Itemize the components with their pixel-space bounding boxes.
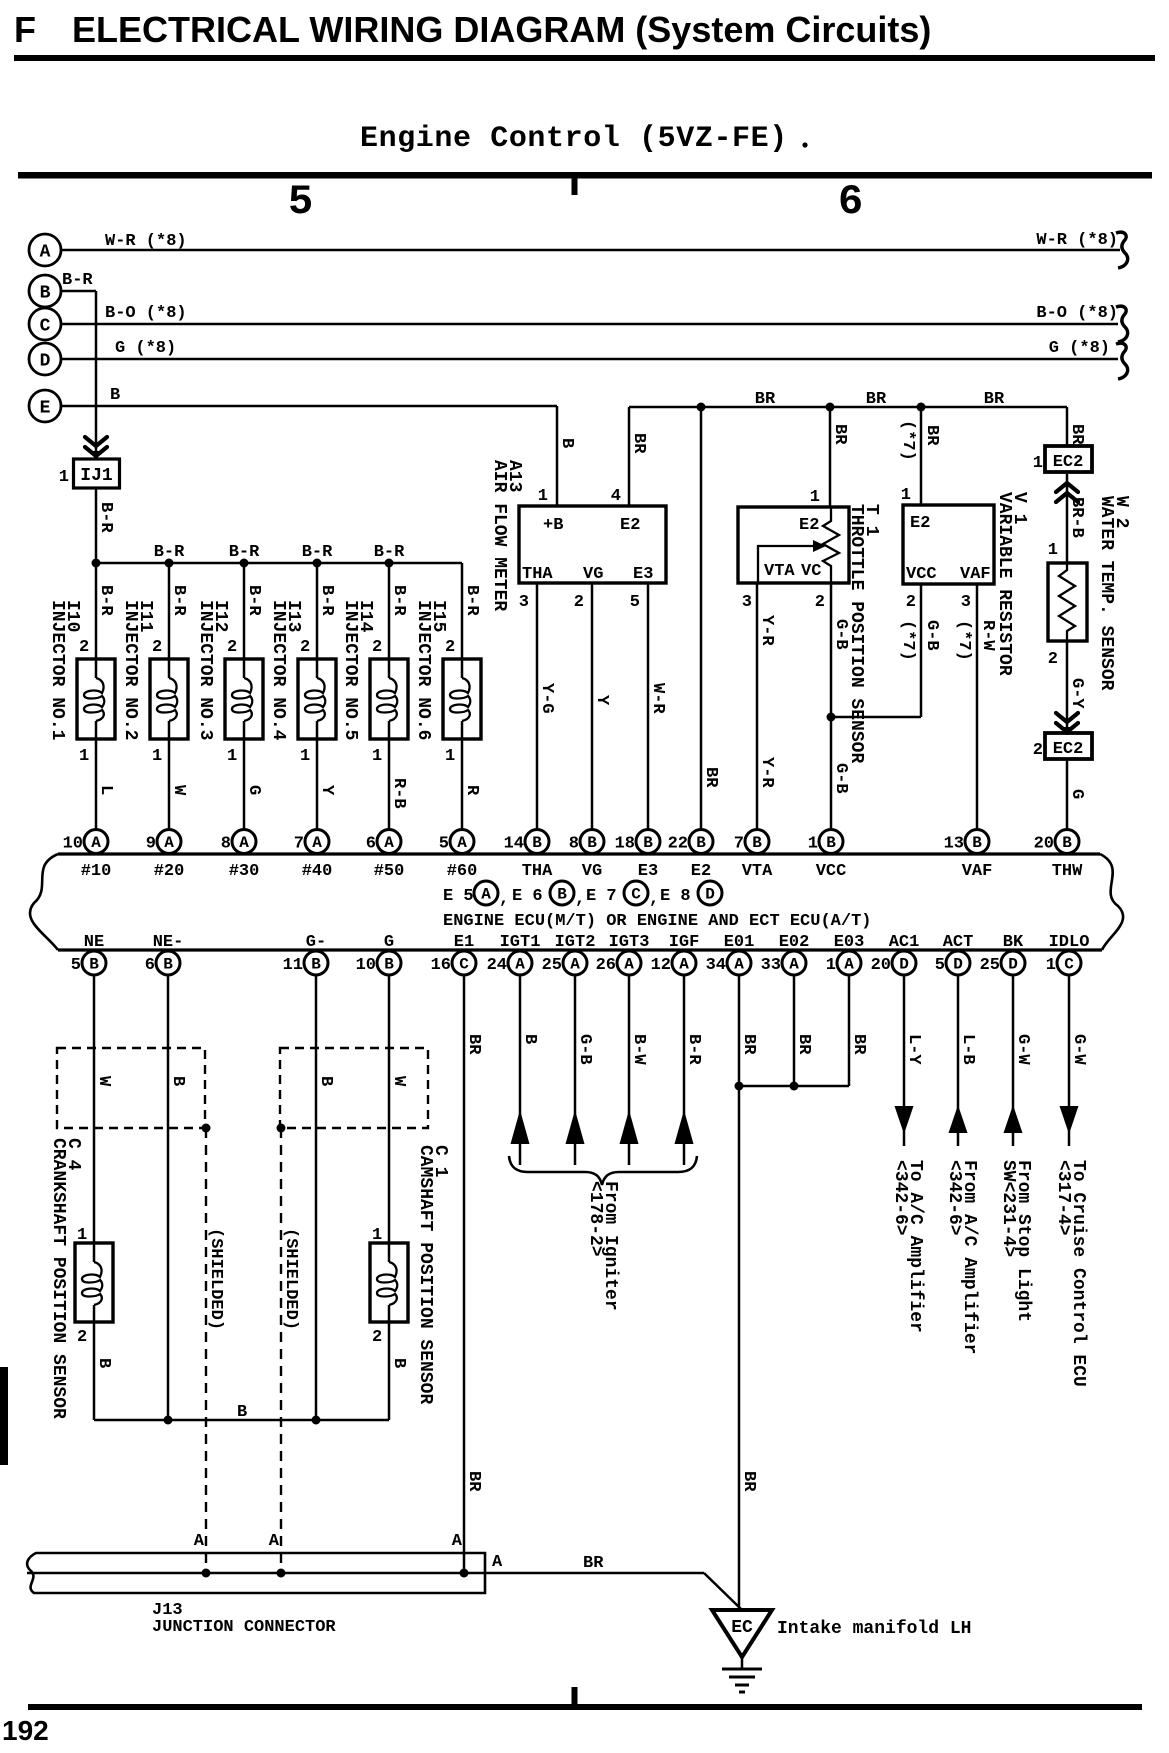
connector circle B bbox=[29, 275, 61, 307]
ECU terminal 20(B) THW bbox=[1034, 830, 1079, 854]
svg-text:5: 5 bbox=[439, 835, 449, 854]
ECU strip left torn edge bbox=[30, 854, 58, 950]
svg-text:B-R: B-R bbox=[374, 543, 405, 562]
left margin index tab bbox=[0, 1367, 8, 1465]
svg-text:3: 3 bbox=[961, 593, 971, 612]
svg-text:INJECTOR NO.1: INJECTOR NO.1 bbox=[47, 600, 67, 741]
ECU terminal 16(C) E1 bbox=[431, 951, 476, 975]
svg-text:192: 192 bbox=[2, 1715, 49, 1746]
ECU terminal 1(A) E03 bbox=[826, 951, 861, 975]
svg-text:G-B: G-B bbox=[922, 620, 941, 651]
shield box camshaft sensor bbox=[280, 1048, 428, 1128]
junction dot shield crank bbox=[202, 1124, 211, 1133]
svg-text:E03: E03 bbox=[834, 933, 865, 952]
water temp sensor W2 box bbox=[1048, 563, 1087, 641]
svg-text:L: L bbox=[96, 785, 115, 795]
svg-text:B: B bbox=[532, 834, 542, 852]
title period mark bbox=[802, 142, 807, 147]
svg-text:34: 34 bbox=[706, 956, 726, 975]
svg-text:E01: E01 bbox=[724, 933, 755, 952]
svg-text:Intake manifold LH: Intake manifold LH bbox=[777, 1619, 971, 1639]
top section bar bbox=[18, 172, 1152, 179]
svg-text:2: 2 bbox=[1048, 650, 1058, 669]
svg-text:A: A bbox=[679, 956, 689, 974]
wire VCC link horizontal bbox=[831, 716, 921, 719]
svg-text:2: 2 bbox=[77, 1328, 87, 1347]
J13 internal bus wire bbox=[27, 1572, 485, 1575]
ground symbol EC bbox=[712, 1610, 772, 1692]
ECU terminal 5(A) #60 bbox=[439, 830, 474, 854]
connector code circle A bbox=[474, 881, 498, 905]
svg-text:NE-: NE- bbox=[153, 933, 184, 952]
connector EC2 pin1 box bbox=[1045, 446, 1092, 472]
throttle position sensor T1 box bbox=[738, 507, 849, 583]
injector I15 INJECTOR NO.6 bbox=[443, 563, 481, 830]
svg-text:BR: BR bbox=[866, 390, 887, 409]
svg-text:1: 1 bbox=[808, 835, 818, 854]
svg-text:6: 6 bbox=[366, 835, 376, 854]
wire G-B IGT/IGF x=575 bbox=[574, 975, 577, 1166]
svg-text:A: A bbox=[452, 1532, 463, 1551]
svg-text:ENGINE ECU(M/T) OR ENGINE AND: ENGINE ECU(M/T) OR ENGINE AND ECT ECU(A/… bbox=[443, 912, 871, 931]
wire A W-R (*8) bbox=[61, 249, 1120, 252]
svg-text:BR: BR bbox=[583, 1554, 604, 1573]
svg-text:A: A bbox=[844, 956, 854, 974]
svg-text:<342-6>: <342-6> bbox=[890, 1160, 910, 1236]
junction connector IJ1 bbox=[74, 459, 120, 488]
svg-text:2: 2 bbox=[445, 638, 455, 657]
top bar center tick bbox=[572, 178, 578, 195]
svg-text:IJ1: IJ1 bbox=[80, 466, 113, 486]
svg-text:20: 20 bbox=[1034, 835, 1054, 854]
svg-text:B-R: B-R bbox=[462, 585, 481, 616]
svg-text:(*7): (*7) bbox=[898, 620, 917, 661]
svg-text:#40: #40 bbox=[302, 862, 333, 881]
svg-text:IDLO: IDLO bbox=[1049, 933, 1090, 952]
shield drain wire cam bbox=[280, 1128, 282, 1573]
svg-text:EC2: EC2 bbox=[1053, 453, 1084, 472]
svg-text:B: B bbox=[316, 1076, 335, 1086]
junction dot E02 bbox=[790, 1082, 799, 1091]
svg-text:18: 18 bbox=[615, 835, 635, 854]
svg-text:E 8: E 8 bbox=[660, 887, 691, 906]
svg-text:ELECTRICAL WIRING DIAGRAM (Sys: ELECTRICAL WIRING DIAGRAM (System Circui… bbox=[72, 9, 931, 50]
svg-text:A: A bbox=[570, 956, 580, 974]
svg-text:VTA: VTA bbox=[742, 862, 773, 881]
variable resistor V1 box bbox=[903, 505, 994, 584]
sensor ground bus BR bbox=[629, 406, 1067, 409]
svg-text:A: A bbox=[91, 834, 101, 852]
svg-text:IGT2: IGT2 bbox=[555, 933, 596, 952]
arrow from igniter x=629 bbox=[620, 1110, 639, 1144]
ECU connector strip bottom edge bbox=[58, 948, 1102, 951]
svg-text:<342-6>: <342-6> bbox=[944, 1160, 964, 1236]
svg-text:B: B bbox=[94, 1358, 113, 1368]
wire G-Y below sensor bbox=[1066, 641, 1069, 735]
svg-text:ACT: ACT bbox=[943, 933, 974, 952]
svg-text:(SHIELDED): (SHIELDED) bbox=[281, 1228, 300, 1330]
wire G-B VCC down bbox=[920, 584, 923, 717]
svg-text:G-Y: G-Y bbox=[1067, 678, 1086, 709]
svg-text:R-W: R-W bbox=[978, 620, 997, 651]
thermistor symbol W2 bbox=[1059, 563, 1075, 641]
svg-text:G: G bbox=[1067, 789, 1086, 799]
wire D continuation squiggle bbox=[1116, 343, 1128, 379]
svg-text:1: 1 bbox=[152, 747, 162, 766]
wire B to A13 +B bbox=[556, 406, 559, 506]
svg-text:VG: VG bbox=[583, 565, 603, 584]
junction dot bus x=96 bbox=[92, 559, 101, 568]
svg-text:B-O (*8): B-O (*8) bbox=[1036, 304, 1118, 323]
ECU terminal 1(C) IDLO bbox=[1046, 951, 1081, 975]
svg-text:2: 2 bbox=[372, 638, 382, 657]
svg-text:C: C bbox=[459, 956, 469, 974]
brace From Igniter bbox=[509, 1156, 697, 1185]
junction dot shield cam bbox=[277, 1124, 286, 1133]
injector I14 INJECTOR NO.5 bbox=[370, 563, 408, 830]
ECU terminal 1(B) VCC bbox=[808, 830, 843, 854]
svg-text:THA: THA bbox=[522, 862, 553, 881]
svg-text:BR: BR bbox=[984, 390, 1005, 409]
wire Y VG bbox=[591, 583, 594, 830]
ECU strip right torn edge bbox=[1100, 854, 1123, 950]
coil of injector I14 bbox=[377, 678, 397, 721]
svg-text:B-R: B-R bbox=[154, 543, 185, 562]
crankshaft position sensor C4 pickup coil bbox=[75, 1243, 113, 1322]
arrow from igniter x=684 bbox=[675, 1110, 694, 1144]
svg-text:B: B bbox=[520, 1034, 539, 1044]
ECU terminal 11(B) G- bbox=[283, 951, 328, 975]
svg-text:3: 3 bbox=[742, 593, 752, 612]
svg-text:#30: #30 bbox=[229, 862, 260, 881]
svg-text:Y-R: Y-R bbox=[757, 757, 776, 788]
svg-text:1: 1 bbox=[79, 747, 89, 766]
svg-text:<317-4>: <317-4> bbox=[1053, 1160, 1073, 1236]
svg-text:B: B bbox=[643, 834, 653, 852]
ECU terminal 25(A) IGT2 bbox=[542, 951, 587, 975]
ECU terminal 14(B) THA bbox=[504, 830, 549, 854]
svg-text:1: 1 bbox=[1046, 956, 1056, 975]
svg-text:10: 10 bbox=[356, 956, 376, 975]
connector circle C bbox=[29, 308, 61, 340]
svg-text:A: A bbox=[312, 834, 322, 852]
svg-text:THW: THW bbox=[1052, 862, 1083, 881]
svg-text:IGT1: IGT1 bbox=[500, 933, 541, 952]
ECU terminal 24(A) IGT1 bbox=[487, 951, 532, 975]
ECU terminal 5(D) ACT bbox=[935, 951, 970, 975]
svg-text:1: 1 bbox=[810, 488, 820, 507]
connector circle A bbox=[29, 234, 61, 266]
wire BR E01 to ground bbox=[738, 975, 741, 1611]
svg-text:BR: BR bbox=[794, 1034, 813, 1055]
junction dot J13 crank shield bbox=[202, 1569, 211, 1578]
male connector arrow EC2 top bbox=[1056, 483, 1078, 502]
wire B-R IGT/IGF x=684 bbox=[683, 975, 686, 1166]
ECU terminal 34(A) E01 bbox=[706, 951, 751, 975]
injector I10 INJECTOR NO.1 bbox=[77, 563, 115, 830]
svg-text:W: W bbox=[169, 785, 188, 796]
svg-text:B-R: B-R bbox=[389, 585, 408, 616]
svg-text:G-W: G-W bbox=[1069, 1034, 1088, 1065]
svg-text:A: A bbox=[481, 886, 491, 904]
arrow to cruise control ECU bbox=[1060, 1106, 1079, 1134]
svg-text:CAMSHAFT POSITION SENSOR: CAMSHAFT POSITION SENSOR bbox=[415, 1145, 435, 1404]
wire BR to V1 pin 1 bbox=[920, 407, 923, 505]
svg-text:A: A bbox=[194, 1532, 205, 1551]
svg-text:L-B: L-B bbox=[958, 1034, 977, 1065]
svg-text:,: , bbox=[575, 890, 585, 909]
svg-text:B-R: B-R bbox=[62, 271, 93, 290]
svg-text:R-B: R-B bbox=[389, 778, 408, 809]
wire B-R vertical to IJ1 bbox=[95, 291, 98, 457]
svg-text:A: A bbox=[789, 956, 799, 974]
ECU terminal 5(B) NE bbox=[71, 951, 106, 975]
ECU terminal 7(B) VTA bbox=[734, 830, 769, 854]
wire BR to EC2 bbox=[1066, 407, 1069, 446]
ECU terminal 13(B) VAF bbox=[944, 830, 989, 854]
svg-text:G-W: G-W bbox=[1013, 1034, 1032, 1065]
svg-text:1: 1 bbox=[1033, 454, 1043, 473]
svg-text:B: B bbox=[89, 956, 99, 974]
ECU terminal 10(A) #10 bbox=[63, 830, 108, 854]
svg-text:W: W bbox=[389, 1076, 408, 1087]
wire Y-R VTA bbox=[756, 583, 759, 830]
ECU terminal 6(B) NE- bbox=[145, 951, 180, 975]
svg-text:E2: E2 bbox=[799, 516, 819, 535]
svg-text:8: 8 bbox=[569, 835, 579, 854]
junction dot J13 E1 bbox=[460, 1569, 469, 1578]
svg-text:#10: #10 bbox=[81, 862, 112, 881]
svg-text:BR: BR bbox=[629, 433, 648, 454]
connector code circle C bbox=[624, 881, 648, 905]
sensor common B wire bbox=[94, 1419, 389, 1422]
wire G- bbox=[315, 975, 318, 1421]
svg-text:SW<231-4>: SW<231-4> bbox=[998, 1160, 1018, 1257]
wire E B bbox=[61, 405, 557, 408]
svg-text:E 7: E 7 bbox=[586, 887, 617, 906]
svg-text:B-W: B-W bbox=[629, 1034, 648, 1065]
coil of injector I15 bbox=[450, 678, 470, 721]
svg-text:G-B: G-B bbox=[575, 1034, 594, 1065]
wire G-W BK bbox=[1012, 975, 1015, 1147]
wire D G (*8) bbox=[61, 358, 1118, 361]
arrow from igniter x=520 bbox=[511, 1110, 530, 1144]
wiper arrow T1 bbox=[758, 546, 813, 583]
svg-text:A: A bbox=[384, 834, 394, 852]
ECU terminal 8(A) #30 bbox=[221, 830, 256, 854]
wire BR-B to sensor bbox=[1066, 474, 1069, 563]
svg-text:B: B bbox=[826, 834, 836, 852]
svg-text:Engine Control (5VZ-FE): Engine Control (5VZ-FE) bbox=[360, 122, 788, 156]
svg-text:B-R: B-R bbox=[244, 585, 263, 616]
ECU connector strip top edge bbox=[58, 852, 1100, 855]
wire BR E03 bbox=[848, 975, 851, 1087]
svg-text:B-R: B-R bbox=[684, 1034, 703, 1065]
ECU terminal 10(B) G bbox=[356, 951, 401, 975]
svg-text:VTA: VTA bbox=[764, 562, 795, 581]
junction dot bus x=244 bbox=[240, 559, 249, 568]
svg-text:2: 2 bbox=[1033, 741, 1043, 760]
junction dot G-B bbox=[827, 713, 836, 722]
svg-text:WATER TEMP. SENSOR: WATER TEMP. SENSOR bbox=[1096, 496, 1116, 691]
wire BR J13 to ground bbox=[485, 1572, 704, 1575]
svg-text:B-O (*8): B-O (*8) bbox=[105, 304, 187, 323]
injector I13 INJECTOR NO.4 bbox=[298, 563, 336, 830]
arrow to A/C amplifier bbox=[895, 1106, 914, 1134]
svg-text:Y: Y bbox=[592, 695, 611, 706]
junction dot bus T1 bbox=[826, 403, 835, 412]
svg-text:A: A bbox=[164, 834, 174, 852]
wire BR E1 to J13 bbox=[463, 975, 466, 1574]
svg-text:9: 9 bbox=[146, 835, 156, 854]
svg-text:INJECTOR NO.5: INJECTOR NO.5 bbox=[340, 600, 360, 740]
svg-text:INJECTOR NO.6: INJECTOR NO.6 bbox=[413, 600, 433, 740]
svg-text:2: 2 bbox=[79, 638, 89, 657]
svg-text:25: 25 bbox=[980, 956, 1000, 975]
svg-text:26: 26 bbox=[596, 956, 616, 975]
wire G to THW bbox=[1066, 759, 1069, 830]
svg-text:<178-2>: <178-2> bbox=[585, 1181, 605, 1257]
svg-text:AC1: AC1 bbox=[889, 933, 920, 952]
svg-text:E3: E3 bbox=[633, 565, 653, 584]
svg-text:W-R (*8): W-R (*8) bbox=[1036, 231, 1118, 250]
svg-text:11: 11 bbox=[283, 956, 303, 975]
arrow from stop light switch bbox=[1004, 1105, 1023, 1133]
wire A continuation squiggle bbox=[1116, 232, 1128, 268]
svg-text:G-B: G-B bbox=[831, 619, 850, 650]
svg-text:3: 3 bbox=[519, 593, 529, 612]
svg-text:1: 1 bbox=[59, 468, 69, 487]
svg-text:#20: #20 bbox=[154, 862, 185, 881]
svg-text:5: 5 bbox=[288, 178, 313, 226]
svg-text:BR: BR bbox=[701, 767, 720, 788]
svg-text:VAF: VAF bbox=[962, 862, 993, 881]
svg-text:B: B bbox=[384, 956, 394, 974]
svg-text:5: 5 bbox=[630, 593, 640, 612]
svg-text:8: 8 bbox=[221, 835, 231, 854]
svg-text:W: W bbox=[94, 1076, 113, 1087]
svg-text:C: C bbox=[40, 317, 51, 337]
svg-text:G-B: G-B bbox=[831, 763, 850, 794]
svg-text:1: 1 bbox=[227, 747, 237, 766]
svg-text:E2: E2 bbox=[910, 514, 930, 533]
svg-text:AIR FLOW METER: AIR FLOW METER bbox=[489, 460, 509, 611]
wire B below C4 coil bbox=[93, 1305, 96, 1420]
junction dot G- bbox=[312, 1416, 321, 1425]
svg-text:BR: BR bbox=[830, 424, 849, 445]
svg-text:B-R: B-R bbox=[317, 585, 336, 616]
svg-text:B: B bbox=[752, 834, 762, 852]
svg-text:B: B bbox=[163, 956, 173, 974]
svg-text:2: 2 bbox=[227, 638, 237, 657]
svg-text:BR: BR bbox=[1067, 424, 1086, 445]
junction dot E01 bbox=[735, 1082, 744, 1091]
bottom bar center tick bbox=[572, 1687, 578, 1704]
svg-text:Y-R: Y-R bbox=[757, 615, 776, 646]
svg-text:D: D bbox=[1008, 956, 1018, 974]
connector code circle D bbox=[698, 881, 722, 905]
svg-text:B: B bbox=[40, 284, 51, 304]
junction dot J13 cam shield bbox=[277, 1569, 286, 1578]
svg-text:12: 12 bbox=[651, 956, 671, 975]
svg-text:B: B bbox=[696, 834, 706, 852]
junction connector J13 body bbox=[27, 1553, 485, 1593]
svg-text:E1: E1 bbox=[454, 933, 474, 952]
wire BR diagonal to ground bbox=[704, 1573, 741, 1609]
svg-text:E 5: E 5 bbox=[443, 887, 474, 906]
wire R-W VAF bbox=[976, 584, 979, 830]
svg-text:1: 1 bbox=[826, 956, 836, 975]
svg-text:B: B bbox=[557, 438, 576, 448]
svg-text:B: B bbox=[168, 1076, 187, 1086]
ECU terminal 20(D) AC1 bbox=[871, 951, 916, 975]
junction dot bus V1 bbox=[917, 403, 926, 412]
svg-text:24: 24 bbox=[487, 956, 507, 975]
svg-text:33: 33 bbox=[761, 956, 781, 975]
svg-text:+B: +B bbox=[543, 516, 563, 535]
svg-text:1: 1 bbox=[372, 1226, 382, 1245]
wire Y-G THA bbox=[536, 583, 539, 830]
svg-text:E2: E2 bbox=[691, 862, 711, 881]
svg-text:A: A bbox=[624, 956, 634, 974]
svg-text:D: D bbox=[705, 886, 715, 904]
svg-text:A: A bbox=[239, 834, 249, 852]
svg-text:2: 2 bbox=[300, 638, 310, 657]
svg-text:6: 6 bbox=[145, 956, 155, 975]
svg-text:W-R (*8): W-R (*8) bbox=[105, 232, 187, 251]
wire B IGT/IGF x=520 bbox=[519, 975, 522, 1166]
svg-text:(SHIELDED): (SHIELDED) bbox=[206, 1228, 225, 1330]
svg-text:NE: NE bbox=[84, 933, 104, 952]
wire G bbox=[388, 975, 391, 1263]
svg-text:D: D bbox=[899, 956, 909, 974]
svg-text:7: 7 bbox=[294, 835, 304, 854]
svg-text:INJECTOR NO.3: INJECTOR NO.3 bbox=[195, 600, 215, 740]
ECU terminal 22(B) E2 bbox=[668, 830, 713, 854]
svg-text:5: 5 bbox=[71, 956, 81, 975]
svg-text:BR: BR bbox=[849, 1034, 868, 1055]
svg-text:5: 5 bbox=[935, 956, 945, 975]
svg-text:F: F bbox=[14, 9, 36, 50]
svg-text:IGT3: IGT3 bbox=[609, 933, 650, 952]
svg-text:1: 1 bbox=[445, 747, 455, 766]
connector circle D bbox=[29, 343, 61, 375]
junction dot bus E2 terminal bbox=[697, 403, 706, 412]
wire W-R E3 bbox=[647, 583, 650, 830]
svg-text:B: B bbox=[972, 834, 982, 852]
wire G-W IDLO bbox=[1068, 975, 1071, 1147]
coil of C4 bbox=[82, 1262, 102, 1305]
coil of injector I12 bbox=[232, 678, 252, 721]
svg-text:,: , bbox=[649, 890, 659, 909]
svg-text:JUNCTION CONNECTOR: JUNCTION CONNECTOR bbox=[152, 1618, 336, 1637]
arrow into IJ1 bbox=[85, 437, 107, 456]
shield drain wire crank bbox=[205, 1128, 207, 1573]
svg-text:2: 2 bbox=[906, 593, 916, 612]
svg-text:A: A bbox=[492, 1553, 503, 1572]
svg-text:#60: #60 bbox=[447, 862, 478, 881]
wire B-R below IJ1 bbox=[95, 488, 98, 563]
svg-text:BR: BR bbox=[755, 390, 776, 409]
injector I11 INJECTOR NO.2 bbox=[150, 563, 188, 830]
junction dot bus x=169 bbox=[165, 559, 174, 568]
svg-text:VAF: VAF bbox=[960, 565, 991, 584]
junction dot bus x=317 bbox=[313, 559, 322, 568]
svg-text:B-R: B-R bbox=[96, 502, 115, 533]
svg-text:B-R: B-R bbox=[169, 585, 188, 616]
wire BR to E2 terminal bbox=[700, 407, 703, 830]
arrow from igniter x=575 bbox=[566, 1110, 585, 1144]
